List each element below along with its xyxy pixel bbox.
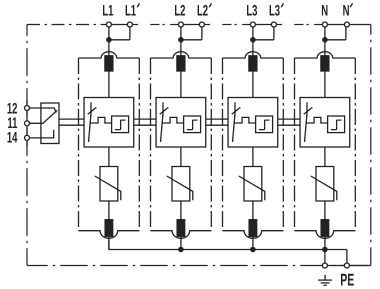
svg-text:L3: L3 xyxy=(269,2,280,19)
svg-text:L2: L2 xyxy=(197,2,208,19)
svg-text:14: 14 xyxy=(7,130,18,147)
svg-text:L3: L3 xyxy=(246,2,257,19)
svg-text:N: N xyxy=(321,2,328,19)
svg-text:L1: L1 xyxy=(102,2,113,19)
svg-text:N: N xyxy=(343,2,350,19)
svg-text:L2: L2 xyxy=(174,2,185,19)
svg-text:L1: L1 xyxy=(125,2,136,19)
svg-text:PE: PE xyxy=(340,271,354,289)
